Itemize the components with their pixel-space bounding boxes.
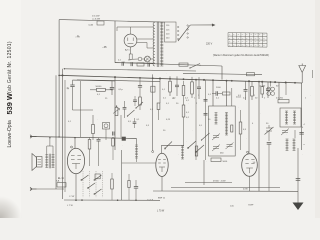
svg-text:·•·: ·•· [263, 35, 265, 37]
preamp cap 2 [110, 81, 114, 95]
coil mid low [135, 145, 138, 158]
svg-text:50000: 50000 [96, 86, 103, 88]
svg-text:⤶Pb: ⤶Pb [103, 46, 108, 49]
bus D [183, 73, 262, 74]
wire right vertical x301 [301, 83, 303, 150]
antenna symbol [299, 64, 306, 84]
selector contacts right [187, 25, 188, 38]
mid zone labels [162, 89, 239, 143]
svg-text:·•·: ·•· [237, 45, 239, 47]
label 01u [119, 89, 124, 91]
output transformer secondary [52, 155, 55, 168]
svg-text:ca 3,5W: ca 3,5W [92, 18, 101, 20]
svg-text:·•·: ·•· [242, 35, 244, 37]
padder capacitor [267, 143, 272, 192]
svg-text:·•·: ·•· [254, 45, 256, 47]
wire y145 link [162, 145, 185, 153]
svg-text:L 7 W: L 7 W [67, 205, 74, 207]
wave switch 0 [164, 142, 172, 150]
svg-text:ℓ 7 W: ℓ 7 W [69, 195, 75, 198]
label 220V [206, 43, 213, 46]
grid line EL11 [30, 137, 137, 139]
mid cluster switch [133, 96, 143, 109]
bus A main [59, 75, 302, 83]
volume potentiometer [113, 106, 120, 116]
svg-text:·•·: ·•· [237, 38, 239, 40]
wire right vert x312 [312, 70, 314, 78]
resistor above IF [223, 92, 231, 95]
svg-text:AZ 1: AZ 1 [125, 49, 130, 52]
antenna coil secondary [293, 111, 296, 124]
resistor on grid lead [151, 86, 155, 92]
wire EL11 bottom [75, 174, 77, 201]
antenna coupling loops [267, 82, 275, 95]
svg-text:·•·: ·•· [263, 45, 265, 47]
resistor x113 vertical [112, 137, 115, 160]
svg-text:ℓ 6/9F: ℓ 6/9F [248, 204, 254, 207]
label 500 30 [260, 86, 280, 88]
preamp top rail [73, 79, 116, 82]
line y1826 [185, 182, 232, 184]
label bottom center [157, 211, 165, 213]
cathode pin circle [138, 57, 142, 61]
svg-text:·•·: ·•· [246, 45, 248, 47]
output tube EL11 [67, 146, 84, 174]
wire y163 link [122, 162, 156, 164]
svg-text:·•·: ·•· [254, 42, 256, 44]
label 2x01 [236, 97, 242, 99]
svg-text:·•·: ·•· [259, 42, 261, 44]
svg-text:·•·: ·•· [246, 42, 248, 44]
resistor above bank h [95, 174, 100, 179]
resistor 5000 horizontal [211, 158, 228, 163]
bus component 6 [251, 81, 254, 100]
svg-text:·•·: ·•· [242, 42, 244, 44]
bus y1875 [171, 187, 280, 189]
coil left of switches [181, 146, 184, 159]
svg-text:·•·: ·•· [250, 35, 252, 37]
speaker [32, 154, 42, 171]
svg-text:·•·: ·•· [229, 38, 231, 40]
switch contact 3 [94, 175, 102, 181]
label 4W [92, 16, 101, 21]
resistor x129 bottom [128, 174, 130, 200]
svg-text:·•·: ·•· [237, 35, 239, 37]
resistor on bus D [247, 73, 255, 76]
table caption [213, 54, 269, 57]
svg-text:·•·: ·•· [229, 45, 231, 47]
label EBF11 [158, 198, 166, 200]
cap cluster a [123, 101, 127, 118]
bus component 1 [169, 76, 172, 96]
wire top rail [59, 20, 152, 22]
wire right vertical x279 [278, 82, 280, 99]
cap bottom mid [134, 180, 138, 200]
wire x196 vertical [195, 81, 197, 161]
svg-text:·•·: ·•· [259, 45, 261, 47]
resistor x183 lower [182, 105, 185, 146]
selector contacts left [178, 26, 179, 39]
label bottom right [230, 204, 254, 208]
wire x136 down [136, 139, 138, 146]
pickup box [56, 180, 66, 187]
grid resistor column [88, 137, 91, 166]
heater cap 1 [122, 62, 124, 66]
svg-text:·•·: ·•· [263, 38, 265, 40]
svg-text:L 70 W: L 70 W [157, 211, 165, 213]
svg-text:47000 · 4,5W: 47000 · 4,5W [213, 181, 226, 183]
wire pot drop [120, 115, 122, 138]
svg-text:·•·: ·•· [242, 38, 244, 40]
IF coil primary [215, 113, 218, 125]
svg-text:·•·: ·•· [250, 38, 252, 40]
IF label [220, 153, 224, 155]
tuning capacitor osc [265, 125, 274, 141]
heater drop [221, 66, 223, 80]
series box on grid line [122, 137, 126, 140]
wire rect bottom rail [115, 62, 153, 65]
svg-text:·•·: ·•· [233, 45, 235, 47]
svg-text:·•·: ·•· [254, 38, 256, 40]
IF trimmer 1 [212, 134, 220, 141]
wire x115 lower vertical [114, 77, 116, 150]
output transformer primary [45, 155, 48, 168]
antenna trimmer [281, 129, 289, 136]
transformer primary [153, 23, 155, 67]
rectifier tube AZ11 [124, 27, 137, 52]
selector wiper [178, 26, 190, 41]
phono arrow 2 [30, 187, 64, 190]
wire IF feed right2 [231, 88, 233, 106]
preamp grid resistor [96, 86, 106, 96]
IF resistor inner [231, 125, 233, 132]
svg-text:4,5W: 4,5W [243, 189, 248, 191]
switch cluster arrow [127, 110, 135, 117]
svg-text:·•·: ·•· [259, 35, 261, 37]
wire x204 vertical [203, 160, 205, 185]
mid rail [73, 109, 94, 111]
bus component 9 [285, 83, 287, 96]
svg-text:min 4W: min 4W [92, 16, 100, 18]
dial lamp [145, 56, 151, 62]
bus component 8 [266, 82, 270, 98]
wire IF feed left [212, 80, 214, 106]
fuse box [89, 21, 105, 27]
svg-text:(ab Gerät Nr. 12501): (ab Gerät Nr. 12501) [7, 41, 13, 93]
IF trimmer 2 [212, 145, 220, 152]
svg-text:·•·: ·•· [254, 35, 256, 37]
transformer core [157, 22, 159, 68]
mid resistor a [92, 115, 95, 140]
svg-text:Loewe-Opta: Loewe-Opta [7, 120, 13, 147]
resistor on cathode [129, 54, 132, 59]
switch contact 4 [94, 189, 102, 195]
bus A label row [163, 98, 307, 100]
label 16k [0, 0, 1, 1]
wave switch 2 [195, 145, 204, 153]
bus A dots [62, 74, 296, 83]
svg-text:T.A.: T.A. [56, 180, 60, 183]
resistor x158 [157, 103, 160, 120]
tube data table [228, 33, 267, 48]
antenna coil box [280, 108, 301, 127]
label ECH11 [243, 162, 256, 191]
wire rect cathode [130, 47, 132, 54]
wire speaker top [47, 138, 53, 154]
output transformer core [49, 154, 50, 169]
capacitor above IF [212, 91, 222, 95]
heater cap 3 [148, 63, 150, 67]
wire lamp leads [131, 58, 153, 60]
mid caps row [113, 118, 141, 136]
mid column switch [201, 133, 210, 141]
svg-text:0,2A: 0,2A [89, 24, 94, 27]
node bottom a [81, 199, 83, 201]
ground lead [297, 148, 299, 203]
IF trimmer 3 [226, 143, 234, 150]
svg-text:ℓ 2,7 F: ℓ 2,7 F [147, 199, 154, 202]
mid column x205 [204, 80, 208, 160]
svg-text:220 V: 220 V [206, 43, 213, 46]
wire ECH grid [248, 81, 251, 191]
svg-text:·•·: ·•· [233, 38, 235, 40]
wire right vertical x295 [294, 130, 296, 138]
bus component 3 [191, 77, 194, 98]
label EL11 [58, 178, 64, 180]
grid cap column [97, 137, 101, 166]
resistor right of IF [239, 110, 247, 150]
resistor 250 [278, 98, 289, 103]
svg-text:·•·: ·•· [250, 42, 252, 44]
wire EL grid drop [74, 138, 76, 149]
wire rect anode a [137, 38, 153, 40]
heater cap 2 [131, 62, 133, 66]
antenna coil primary [285, 111, 288, 124]
mixer tube ECH11 [242, 151, 258, 176]
wire x62 vertical [62, 69, 64, 199]
wire right vertical x259 [258, 82, 260, 192]
node x62 top [64, 68, 65, 69]
phono arrow 1 [30, 135, 37, 138]
svg-text:·•·: ·•· [233, 42, 235, 44]
heater line [115, 63, 222, 67]
resistor right col labels [304, 124, 306, 146]
wire EBF down [161, 177, 163, 192]
resistor x196 [195, 146, 198, 156]
label Pb left [103, 46, 108, 49]
earth symbol [293, 203, 304, 211]
wire IF feed right [226, 81, 228, 106]
detector tube EBF11 [152, 151, 169, 177]
svg-text:·•·: ·•· [229, 42, 231, 44]
wire rect anode b [137, 43, 153, 49]
title vertical text [5, 41, 14, 147]
heater switch [189, 64, 200, 69]
label 17W [67, 195, 75, 207]
node grid line [49, 136, 114, 138]
cap column x140 [138, 78, 142, 110]
bus y192 [153, 190, 298, 192]
mains lead arrow [190, 24, 216, 27]
wire x80 vertical [80, 81, 82, 137]
cap on ground lead [296, 179, 301, 181]
svg-text:⤶Pb: ⤶Pb [76, 36, 81, 39]
bus C [77, 80, 160, 82]
grid lead x153 [152, 74, 154, 150]
oscillator coil [286, 139, 296, 151]
label Pb upper [76, 36, 81, 39]
voltage selector box [165, 22, 177, 42]
svg-text:1,6k: 1,6k [230, 206, 234, 208]
wire x160 upper [159, 79, 161, 103]
wire left vertical 1 [58, 20, 60, 137]
switch bank resistor [111, 173, 114, 200]
bus bottom left [64, 199, 160, 201]
svg-text:·•·: ·•· [250, 45, 252, 47]
switch contact 2 [87, 183, 95, 189]
switch bank guides [83, 171, 103, 198]
heater resistor [179, 63, 188, 66]
capacitor x301 [299, 133, 303, 135]
wire coil down [136, 158, 138, 162]
svg-text:·•·: ·•· [246, 38, 248, 40]
preamp node wires [73, 89, 113, 110]
svg-text:(Werte in Klammern gelten für: (Werte in Klammern gelten für Allstrom-G… [213, 54, 269, 57]
switch contact 1 [81, 175, 89, 181]
mid cap a [105, 129, 107, 140]
label 63V [123, 62, 126, 64]
heater box [137, 63, 144, 66]
IF coil secondary [225, 113, 228, 136]
bus component 2 [175, 76, 179, 96]
label L27F [147, 199, 154, 202]
svg-text:·•·: ·•· [259, 38, 261, 40]
preamp input cap [67, 80, 75, 92]
wire rectifier vertical [114, 21, 116, 63]
svg-text:539 W: 539 W [5, 93, 14, 114]
node bottom b [117, 199, 137, 201]
mid circle comp [103, 123, 110, 130]
svg-text:EBF 11: EBF 11 [158, 198, 166, 200]
wave switch 1 [187, 141, 196, 149]
svg-text:·•·: ·•· [246, 35, 248, 37]
wire transformer top [152, 21, 165, 23]
bus component 5 [244, 81, 248, 100]
misc tiny labels [68, 59, 311, 163]
svg-text:·•·: ·•· [263, 42, 265, 44]
wire rect top loop [117, 27, 153, 31]
bus component 7 [261, 82, 264, 98]
resistor x183 upper [182, 81, 185, 105]
bus component 4 [197, 77, 201, 99]
IF transformer box [209, 106, 236, 156]
svg-text:·•·: ·•· [233, 35, 235, 37]
bus B upper [64, 69, 196, 71]
transformer secondary [160, 23, 163, 67]
svg-text:·•·: ·•· [229, 35, 231, 37]
svg-text:·•·: ·•· [237, 42, 239, 44]
svg-text:·•·: ·•· [242, 45, 244, 47]
wire x121 vertical [121, 150, 123, 200]
wire x56 vertical [55, 75, 57, 189]
label above y1826 [213, 181, 226, 183]
wire x65 vertical [64, 80, 66, 192]
node left top [58, 75, 60, 77]
